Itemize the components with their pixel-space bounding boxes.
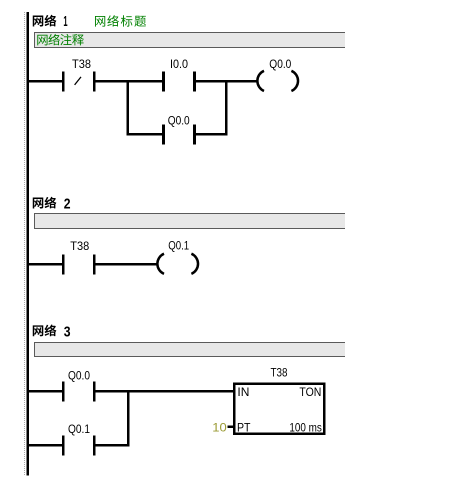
- svg-text:Q0.0: Q0.0: [168, 113, 190, 127]
- svg-text:Q0.1: Q0.1: [168, 239, 189, 253]
- svg-text:100 ms: 100 ms: [289, 420, 322, 434]
- svg-text:Q0.0: Q0.0: [68, 368, 90, 382]
- svg-text:1: 1: [63, 14, 67, 30]
- svg-text:2: 2: [64, 197, 71, 213]
- svg-text:Q0.0: Q0.0: [269, 57, 291, 71]
- svg-text:TON: TON: [299, 385, 321, 399]
- svg-text:T38: T38: [271, 365, 288, 379]
- svg-text:3: 3: [64, 324, 71, 340]
- svg-text:T38: T38: [70, 239, 89, 253]
- svg-text:Q0.1: Q0.1: [68, 422, 90, 436]
- svg-text:I0.0: I0.0: [170, 57, 188, 71]
- svg-text:10: 10: [212, 421, 227, 435]
- svg-text:IN: IN: [237, 385, 249, 399]
- svg-text:PT: PT: [237, 420, 251, 434]
- svg-text:T38: T38: [72, 57, 91, 71]
